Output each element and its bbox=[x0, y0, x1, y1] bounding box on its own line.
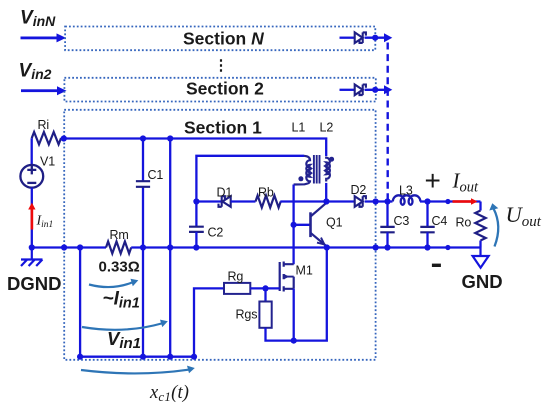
wire Rg left lead bbox=[194, 288, 224, 356]
current arrow Iout (red) bbox=[453, 198, 478, 204]
capacitor C4 bbox=[420, 202, 434, 248]
resistor Rg (box) bbox=[224, 283, 250, 294]
junction top rail C1 bbox=[140, 135, 146, 141]
svg-text:⋮: ⋮ bbox=[214, 57, 229, 74]
Section 1 box bbox=[64, 110, 375, 360]
junction bottom rail C1 bbox=[140, 354, 146, 360]
junction node section 2 output bbox=[372, 87, 378, 93]
svg-text:C2: C2 bbox=[208, 226, 224, 240]
svg-text:L1: L1 bbox=[292, 121, 306, 135]
svg-text:M1: M1 bbox=[296, 264, 313, 278]
junction D1 left bbox=[193, 198, 199, 204]
junction mid rail V1 bbox=[29, 244, 35, 250]
bus arrowhead N bbox=[384, 33, 392, 42]
wire Rgs top lead bbox=[264, 288, 266, 301]
svg-text:Rm: Rm bbox=[110, 228, 129, 242]
junction bus bottom / C3 top bbox=[384, 198, 390, 204]
svg-text:D1: D1 bbox=[217, 186, 233, 200]
source V1 bbox=[20, 165, 43, 188]
junction node section N output bbox=[372, 35, 378, 41]
inductor L3 bbox=[393, 195, 421, 204]
svg-text:C4: C4 bbox=[432, 214, 448, 228]
arrow Uout (curved) bbox=[494, 209, 499, 247]
svg-text:C3: C3 bbox=[394, 214, 410, 228]
phase dot L1 bbox=[298, 176, 303, 181]
wire base lead bbox=[294, 224, 311, 226]
diode DS2 (schottky) bbox=[355, 85, 366, 96]
diode D1 (schottky, pointing left) bbox=[219, 196, 231, 207]
arrow ~Iin1 annotation bbox=[89, 283, 132, 288]
junction bottom rail Rg bbox=[191, 354, 197, 360]
wire Ro top lead bbox=[479, 202, 481, 211]
wire Rg right to gate bbox=[250, 287, 279, 289]
bus arrowhead 2 bbox=[384, 85, 392, 94]
current arrow Iin1 (red) bbox=[28, 203, 35, 230]
junction mid rail x80 bbox=[77, 244, 83, 250]
inductor L1 (primary coil) bbox=[294, 156, 310, 185]
svg-text:0.33Ω: 0.33Ω bbox=[99, 259, 140, 276]
capacitor C3 bbox=[380, 202, 394, 248]
wire Rb to collector node bbox=[280, 200, 326, 202]
inductor L2 (secondary coil) bbox=[326, 157, 330, 182]
junction mid rail C4 bbox=[424, 244, 430, 250]
wire D1 to Rb bbox=[231, 200, 256, 202]
junction C4 top bbox=[424, 198, 430, 204]
Section N box bbox=[65, 27, 375, 51]
resistor Rb bbox=[256, 196, 281, 208]
arrow xc1 annotation bbox=[81, 370, 189, 374]
phase dot L2 bbox=[329, 157, 334, 162]
wire V1 bottom bbox=[31, 188, 33, 248]
minus sign output bbox=[432, 264, 441, 267]
wire mid rail right bbox=[131, 246, 480, 248]
ground GND symbol bbox=[473, 248, 489, 268]
junction mid rail C1 bbox=[140, 244, 146, 250]
wire L1 bottom vertical (to M1 drain) bbox=[292, 185, 294, 265]
wire Ro bottom lead bbox=[479, 241, 481, 248]
wire diode N cathode to node bbox=[365, 37, 385, 39]
junction mid rail C3 bbox=[384, 244, 390, 250]
wire diode S2 cathode to node bbox=[365, 89, 385, 91]
junction top rail at border bbox=[61, 135, 67, 141]
svg-text:GND: GND bbox=[462, 271, 503, 292]
junction collector node bbox=[323, 198, 329, 204]
svg-text:DGND: DGND bbox=[7, 273, 61, 294]
resistor Rgs (box) bbox=[259, 302, 271, 328]
svg-text:Rgs: Rgs bbox=[236, 308, 258, 322]
diode D2 (schottky) bbox=[355, 196, 366, 207]
svg-text:L2: L2 bbox=[320, 121, 334, 135]
svg-text:C1: C1 bbox=[148, 168, 164, 182]
wire Rgs bottom / source return bbox=[266, 248, 327, 341]
junction bottom rail x170 bbox=[167, 354, 173, 360]
svg-text:Rg: Rg bbox=[228, 270, 244, 284]
svg-text:Ro: Ro bbox=[456, 216, 472, 230]
transformer core bbox=[314, 155, 320, 184]
svg-text:Section N: Section N bbox=[183, 29, 264, 49]
svg-text:+: + bbox=[425, 165, 441, 196]
wire L2 bottom to node bbox=[325, 183, 327, 202]
junction mid rail border right bbox=[373, 244, 379, 250]
wire diode S2 anode bbox=[340, 89, 355, 91]
junction mid rail border bbox=[61, 244, 67, 250]
arrow VinN input bbox=[21, 33, 67, 42]
wire bottom rail bbox=[80, 356, 194, 358]
junction top rail second vertical bbox=[167, 135, 173, 141]
svg-text:Section 2: Section 2 bbox=[186, 79, 264, 99]
junction mid rail C2 bbox=[193, 244, 199, 250]
junction Q1 base node bbox=[291, 222, 297, 228]
wire top rail bbox=[61, 139, 326, 157]
junction Ro top tap bbox=[445, 199, 450, 204]
wire D1 anode lead bbox=[196, 200, 221, 202]
svg-text:Q1: Q1 bbox=[326, 216, 343, 230]
svg-text:L3: L3 bbox=[399, 184, 413, 198]
svg-text:Rb: Rb bbox=[258, 186, 274, 200]
wire vertical x170 bbox=[169, 139, 171, 357]
junction emitter node bbox=[324, 244, 330, 250]
wire vertical x80 bbox=[79, 248, 81, 357]
wire mid rail left bbox=[32, 246, 106, 248]
junction gate node bbox=[262, 285, 268, 291]
wire diode N anode bbox=[340, 37, 355, 39]
arrow Vin1 annotation bbox=[82, 324, 162, 330]
svg-text:D2: D2 bbox=[351, 183, 367, 197]
svg-text:V1: V1 bbox=[40, 155, 55, 169]
transistor Q1 bbox=[311, 202, 328, 246]
mosfet M1 bbox=[280, 262, 294, 292]
junction out rail border bbox=[373, 198, 379, 204]
dashed output bus bbox=[387, 43, 389, 200]
resistor Ri bbox=[32, 132, 61, 144]
junction mid rail Ro tap bbox=[445, 245, 450, 250]
resistor Ro bbox=[475, 211, 485, 241]
wire D2 anode lead bbox=[326, 200, 354, 202]
svg-text:Section 1: Section 1 bbox=[184, 118, 262, 138]
ground DGND symbol bbox=[21, 248, 43, 267]
wire vertical C1 lower bbox=[142, 248, 144, 357]
wire L3 to C4 node and Ro bbox=[420, 200, 481, 202]
Section 2 box bbox=[64, 78, 375, 102]
wire M1 source down bbox=[293, 289, 295, 341]
junction source bottom bbox=[291, 338, 297, 344]
junction bottom rail x80 bbox=[77, 354, 83, 360]
diode DN (schottky) bbox=[355, 32, 366, 43]
wire inner loop (C2 top to L1 top) bbox=[196, 156, 304, 227]
wire D2 cathode to C3 node bbox=[365, 200, 393, 202]
capacitor C1 bbox=[142, 139, 144, 248]
junction mid rail x170 bbox=[167, 244, 173, 250]
wire V1 top to Ri bbox=[31, 138, 33, 165]
resistor Rm bbox=[106, 242, 131, 254]
arrow Vin2 input bbox=[21, 86, 67, 95]
capacitor C2 bbox=[189, 227, 204, 232]
svg-text:Ri: Ri bbox=[38, 118, 50, 132]
